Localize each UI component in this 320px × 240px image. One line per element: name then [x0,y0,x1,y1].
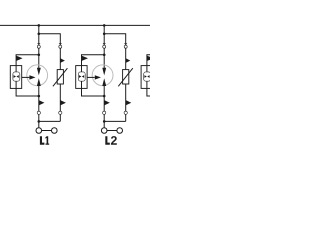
junction dot branch tap, module 1 [38,33,41,36]
label L2 [105,136,110,145]
thermal disconnect arrow F1.2 [59,43,62,45]
wire trigger return, module 2 [82,88,105,96]
spark gap top electrode, module 2 [102,68,106,76]
wire inside trigger box, module 3 [146,66,148,89]
thermal disconnect arrow F1.1 [37,43,40,45]
wire trigger output, module 3 [153,76,161,78]
GDT left electrode, module 2 [79,75,81,78]
thermal disconnect arrow F2.2 [124,43,127,45]
spark gap housing circle, module 1 [27,65,48,86]
GDT left electrode, module 3 [144,75,146,78]
disconnect contact circle F2.2 [124,45,127,48]
wire trigger tap, module 1 [16,55,39,66]
gas discharge tube capsule, module 1 [13,72,20,81]
varistor diagonal stroke, module 1 [53,68,68,86]
trigger electrode arrow, module 1 [29,75,35,79]
gas discharge tube capsule, module 2 [78,72,85,81]
disconnect arrow lower left, module 1 [39,100,45,105]
junction dot on bus, module 2 [103,24,106,27]
wire bottom join, module 2 [104,120,126,122]
thermal disconnect arrow F2.1 [103,43,106,45]
GDT right electrode, module 2 [82,75,84,78]
wire bottom join, module 1 [39,120,61,122]
trigger circuit box, module 2 [76,66,87,89]
spark gap bottom electrode, module 1 [37,78,41,86]
varistor R2 [123,70,129,84]
terminal circle L1 input [36,128,42,134]
disconnect contact circle lower left, module 1 [37,111,40,114]
wire spark-gap leg lower, module 1 [38,86,40,128]
wire varistor leg upper, module 1 [59,49,61,70]
wire trigger output, module 1 [22,76,30,78]
disconnect arrow trigger, module 2 [82,56,89,61]
disconnect arrow lower left, module 2 [104,100,110,105]
spark gap bottom electrode, module 2 [102,78,106,86]
disconnect arrow trigger, module 1 [16,56,23,61]
terminal bridge link L2 [107,130,117,132]
GDT right electrode, module 3 [147,75,149,78]
wire branch to varistor leg, module 1 [39,34,61,44]
junction dot branch tap, module 2 [103,33,106,36]
junction dot bottom join, module 1 [38,120,41,123]
junction dot trigger tap, module 3 [168,54,171,57]
junction dot trigger tap, module 1 [38,54,41,57]
disconnect arrow trigger, module 3 [147,56,154,61]
GDT left electrode, module 1 [14,75,16,78]
wire trigger return, module 1 [16,88,39,96]
junction dot trigger tap, module 2 [103,54,106,57]
wire spark-gap leg lower, module 2 [103,86,105,128]
GDT right electrode, module 1 [16,75,18,78]
junction dot trigger return, module 3 [168,95,171,98]
junction dot trigger return, module 2 [103,95,106,98]
disconnect contact circle lower right, module 2 [124,111,127,114]
disconnect arrow lower right, module 2 [126,100,132,105]
wire varistor leg lower, module 2 [125,84,127,121]
trigger electrode arrow, module 2 [95,75,101,79]
wire trigger tap, module 2 [82,55,105,66]
phase bus wire [0,24,150,26]
gas discharge tube capsule, module 3 [144,72,151,81]
terminal circle L1 output [52,128,58,134]
label L1 [40,136,45,145]
disconnect contact circle F1.1 [37,45,40,48]
junction dot trigger return, module 1 [38,95,41,98]
wire inside trigger box, module 1 [15,66,17,89]
wire branch to varistor leg, module 2 [104,34,126,44]
junction dot on bus, module 1 [38,24,41,27]
terminal circle L2 output [117,128,123,134]
disconnect arrow above varistor, module 1 [60,58,65,63]
wire trigger tap, module 3 [147,55,170,66]
disconnect contact circle lower left, module 2 [103,111,106,114]
wire trigger return, module 3 [147,88,170,96]
wire drop from bus, module 2 [103,25,105,43]
varistor R1 [57,70,63,84]
disconnect contact circle lower right, module 1 [59,111,62,114]
wire spark-gap leg upper, module 1 [38,49,40,69]
terminal bridge link L1 [42,130,52,132]
junction dot bottom join, module 2 [103,120,106,123]
terminal circle L2 input [101,128,107,134]
disconnect contact circle F1.2 [59,45,62,48]
disconnect contact circle F2.1 [103,45,106,48]
wire trigger output, module 2 [87,76,95,78]
trigger circuit box, module 3 [141,66,152,89]
spark gap top electrode, module 1 [37,68,41,76]
spark gap housing circle, module 2 [92,65,113,86]
wire varistor leg lower, module 1 [59,84,61,121]
disconnect arrow lower right, module 1 [60,100,66,105]
trigger circuit box, module 1 [10,66,21,89]
disconnect arrow above varistor, module 2 [126,58,131,63]
wire spark-gap leg upper, module 2 [103,49,105,69]
wire varistor leg upper, module 2 [125,49,127,70]
varistor diagonal stroke, module 2 [118,68,133,86]
wire inside trigger box, module 2 [81,66,83,89]
wire drop from bus, module 1 [38,25,40,43]
